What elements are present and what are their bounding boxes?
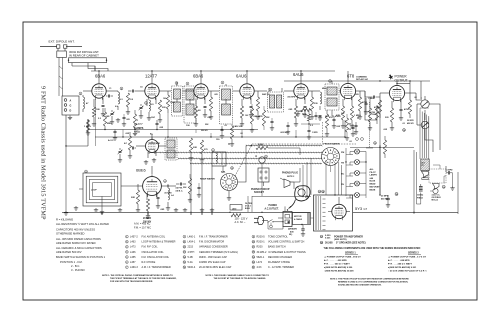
record changer plug <box>295 186 310 201</box>
svg-text:18: 18 <box>321 242 323 244</box>
svg-text:C1: C1 <box>109 88 111 90</box>
resistor V3 screen <box>209 91 213 119</box>
svg-text:L463: L463 <box>130 241 136 244</box>
wire AVC bus <box>88 120 258 130</box>
svg-text:F.M. ANTENNA COIL: F.M. ANTENNA COIL <box>142 236 166 239</box>
wires V2 stage <box>136 71 171 106</box>
capacitor C4 coupling <box>128 90 136 93</box>
legend column 1 <box>126 235 176 269</box>
ground V2b <box>144 158 156 164</box>
resistor avc 1 <box>103 108 106 130</box>
resistor 4700 right <box>383 136 386 158</box>
capacitor bus 3 <box>220 126 224 138</box>
svg-text:LOOP: LOOP <box>91 190 97 192</box>
svg-text:16: 16 <box>395 194 397 196</box>
svg-text:CERAMIC TRIMMER (IN 5 GANG): CERAMIC TRIMMER (IN 5 GANG) <box>199 251 238 254</box>
svg-text:1 MEG: 1 MEG <box>84 126 91 128</box>
svg-text:13: 13 <box>183 252 185 254</box>
resistor det 2 <box>368 104 372 130</box>
svg-text:EXT. DIPOLE ANT.: EXT. DIPOLE ANT. <box>49 40 75 44</box>
svg-text:NOTE 1: THE CRITICAL PHONO: NOTE 1: THE CRITICAL PHONO COMPENSATION … <box>102 274 173 277</box>
svg-text:R = KILOHMS: R = KILOHMS <box>56 218 73 222</box>
capacitor 6BE6 right <box>197 183 201 197</box>
legend column 3 <box>252 235 307 269</box>
svg-text:✚ C . . . . . . .008 MFD: ✚ C . . . . . . .008 MFD <box>388 259 410 262</box>
svg-text:VOLUME CONTROL & SWITCH: VOLUME CONTROL & SWITCH <box>268 241 304 244</box>
svg-text:4.5TH: 4.5TH <box>188 251 195 254</box>
capacitor V2b <box>133 147 137 150</box>
legend power transformer <box>320 235 363 241</box>
label pilot lamps <box>370 168 381 191</box>
band switch FRONT WAFER <box>322 148 340 166</box>
svg-text:C - 12 WHF. TRIMMER: C - 12 WHF. TRIMMER <box>268 266 294 269</box>
resistor 4700 ohm <box>404 97 412 118</box>
label FRONT WAFER <box>324 143 340 146</box>
svg-text:OSCILLATOR COIL: OSCILLATOR COIL <box>142 251 165 254</box>
svg-text:A.M. I.F. TRANSFORMER: A.M. I.F. TRANSFORMER <box>142 266 171 269</box>
folded dipole in cabinet <box>68 58 107 66</box>
svg-text:20 MFD: 20 MFD <box>381 196 389 198</box>
shielded cable 1 <box>246 145 322 147</box>
svg-text:SOUND AND RECORD CHANGER OPERA: SOUND AND RECORD CHANGER OPERATION. <box>338 283 382 286</box>
resistor V6 load <box>341 106 344 124</box>
ground V3 stage <box>194 113 207 126</box>
svg-text:16: 16 <box>183 267 185 269</box>
svg-text:W.): W.) <box>289 234 293 236</box>
svg-text:5.4A: 5.4A <box>188 261 193 264</box>
svg-text:.005 MFD: .005 MFD <box>287 97 296 99</box>
svg-text:FILAMENT CHOKE: FILAMENT CHOKE <box>268 261 290 264</box>
resistor avc 2 <box>133 110 136 130</box>
capacitor stage4 extra <box>270 118 274 130</box>
svg-text:.02: .02 <box>349 141 352 143</box>
capacitor V1 bypass <box>102 106 105 113</box>
capacitor stage1 extra <box>122 114 130 126</box>
label 105-125V <box>235 218 248 225</box>
svg-text:9: 9 <box>266 156 267 158</box>
antenna terminal board <box>62 96 79 115</box>
wires V8 <box>136 166 176 200</box>
svg-text:250 WV: 250 WV <box>201 130 208 132</box>
svg-text:.02 F.M.: .02 F.M. <box>175 188 183 190</box>
label field coil <box>417 194 424 200</box>
svg-text:6BA6: 6BA6 <box>193 74 204 79</box>
svg-text:1 MEG: 1 MEG <box>368 98 374 100</box>
labels elec caps right <box>403 120 415 132</box>
trimmer C6 <box>139 104 144 114</box>
capacitor motor line <box>301 225 305 236</box>
svg-text:R200: R200 <box>257 246 264 249</box>
wire dipole to set <box>72 66 108 71</box>
svg-text:MEG: MEG <box>322 88 327 90</box>
svg-text:BAND SWITCH SHOWN IN POSITION: BAND SWITCH SHOWN IN POSITION 1 <box>56 255 106 259</box>
IF transformer T4 <box>268 88 284 112</box>
svg-text:19: 19 <box>252 257 254 259</box>
svg-text:5.4B: 5.4B <box>188 256 193 259</box>
tube V4 6AU6 <box>240 82 254 100</box>
capacitor V3 bypass <box>204 107 207 114</box>
label 300 ohm FM dipole ant <box>69 50 99 58</box>
wires speaker area <box>414 150 446 214</box>
tube V8 6BE6 <box>143 175 162 197</box>
wire wafer to if <box>238 166 247 182</box>
coil L2 fm rf <box>118 91 120 110</box>
svg-text:PHONO PLUG: PHONO PLUG <box>282 172 298 175</box>
svg-text:RECORD CHANGER: RECORD CHANGER <box>268 256 292 259</box>
wire verticals centre <box>191 146 246 213</box>
shielded wire to volume <box>366 102 373 148</box>
speaker 2 pm <box>430 184 439 194</box>
capacitor V4 bypass <box>249 107 253 118</box>
capacitor V5 bypass <box>303 107 307 118</box>
svg-text:4700: 4700 <box>404 108 410 111</box>
svg-text:NOTE 3: THE PHONO PICKUP SOC: NOTE 3: THE PHONO PICKUP SOCKET WITH RES… <box>330 278 409 281</box>
dial lamp PH <box>341 181 360 186</box>
legend column 2 <box>183 235 238 269</box>
wires V7 stage <box>385 81 416 108</box>
resistor V1 cathode <box>92 107 95 122</box>
label phono plug <box>282 172 298 178</box>
tube V3 6BA6 <box>194 82 208 100</box>
svg-text:.02: .02 <box>414 97 417 99</box>
svg-text:A.M. = 455 KC: A.M. = 455 KC <box>134 223 151 226</box>
svg-text:BEAD: BEAD <box>370 182 376 185</box>
svg-text:5400-4: 5400-4 <box>188 266 196 269</box>
resistor V8 osc grid <box>131 184 140 212</box>
svg-text:6: 6 <box>213 150 214 152</box>
capacitor det 2 <box>354 122 358 134</box>
svg-text:THE FOLLOWING COMPONENTS ARE U: THE FOLLOWING COMPONENTS ARE USED WITH T… <box>324 247 421 250</box>
rear wafer pointer <box>235 145 252 177</box>
resistor V2 grid <box>126 93 129 110</box>
shielded cable 2 <box>150 152 322 154</box>
wires wafer to transformer <box>326 160 342 195</box>
svg-text:BC: BC <box>341 174 345 176</box>
speaker jack J2 <box>417 121 429 129</box>
svg-text:A.C. 60 ∼: A.C. 60 ∼ <box>235 221 247 224</box>
svg-text:9: 9 <box>253 236 254 238</box>
svg-text:2 - B.C.: 2 - B.C. <box>71 264 80 268</box>
svg-text:CAPACITORS 400 WV UNLESS: CAPACITORS 400 WV UNLESS <box>56 228 95 232</box>
svg-text:10MFD 25V ELEC.CAP: 10MFD 25V ELEC.CAP <box>199 261 226 264</box>
svg-text:17: 17 <box>252 247 254 249</box>
svg-text:15: 15 <box>183 262 185 264</box>
svg-text:8: 8 <box>126 242 127 244</box>
svg-text:20-20 MFD-450V ELEC.CAP: 20-20 MFD-450V ELEC.CAP <box>199 266 232 269</box>
svg-text:POWER TRANSFORMER: POWER TRANSFORMER <box>334 236 363 239</box>
series components note <box>287 221 421 250</box>
svg-text:F.M. OSCILLATOR COIL: F.M. OSCILLATOR COIL <box>142 256 170 259</box>
svg-text:.005: .005 <box>126 119 130 121</box>
svg-text:220K: 220K <box>258 144 264 146</box>
svg-text:9 FMT Radio Chassis used in Mo: 9 FMT Radio Chassis used in Model 3915 T… <box>40 86 47 220</box>
svg-text:FIELD: FIELD <box>417 197 424 199</box>
resistor det horizontal <box>296 108 342 139</box>
svg-text:2215: 2215 <box>188 246 194 249</box>
wire right bus down <box>365 91 379 124</box>
wires V5 stage <box>284 71 320 106</box>
dial lamp TB <box>341 160 360 165</box>
title text vertical left margin <box>40 86 47 220</box>
svg-text:47K: 47K <box>156 142 160 145</box>
svg-text:TONE CONTROL: TONE CONTROL <box>268 236 288 239</box>
svg-text:BAND SWITCH: BAND SWITCH <box>268 246 286 249</box>
notes IF freq <box>134 216 151 230</box>
circled pots <box>265 155 268 158</box>
svg-text:MEG: MEG <box>107 123 112 125</box>
coil ratio detector primary <box>318 92 322 120</box>
resistor V6 avc <box>350 106 353 124</box>
series table <box>324 252 427 273</box>
note 3 fine print <box>330 278 409 287</box>
svg-text:10: 10 <box>374 143 376 145</box>
osc coil L4 <box>166 184 175 210</box>
svg-text:L473: L473 <box>130 246 136 249</box>
svg-text:OTHERWISE MARKED: OTHERWISE MARKED <box>56 232 85 236</box>
svg-text:REAR WAFER: REAR WAFER <box>200 178 215 181</box>
svg-text:9.320: 9.320 <box>325 235 331 237</box>
svg-text:A.M.: A.M. <box>221 171 226 174</box>
svg-text:ⒶAMPS: ⒶAMPS <box>134 126 144 130</box>
capacitor 100 mfd note <box>175 183 186 193</box>
svg-text:VARIABLE CONDENSER: VARIABLE CONDENSER <box>199 246 228 249</box>
wires rectifier <box>328 197 350 212</box>
svg-text:1 MEG: 1 MEG <box>354 115 361 117</box>
tube V5 6AU6 <box>294 82 308 100</box>
output transformer <box>421 159 429 171</box>
label EXT. DIPOLE ANT. <box>49 40 75 44</box>
svg-text:7: 7 <box>126 267 127 269</box>
capacitor 20mfd 450 top <box>381 193 398 208</box>
legend speaker <box>320 241 366 244</box>
svg-text:7: 7 <box>270 89 271 91</box>
svg-text:.005 MFD: .005 MFD <box>280 132 289 134</box>
svg-text:FOR USE WITH THE TELEVISIO: FOR USE WITH THE TELEVISION RECEIVER. <box>110 281 153 283</box>
capacitor bus 2 <box>156 120 159 130</box>
svg-text:✚ C . . . . . . . .003 MFD: ✚ C . . . . . . . .003 MFD <box>324 259 347 262</box>
dashed box speaker plug <box>429 169 446 183</box>
svg-text:R200-5: R200-5 <box>257 236 266 239</box>
resistor V3 cathode <box>194 106 197 122</box>
wires dial lamps <box>346 148 366 198</box>
svg-text:3 - PHONO: 3 - PHONO <box>71 268 85 272</box>
resistor V2b grid <box>128 132 132 158</box>
resistor V8 cathode <box>146 199 150 218</box>
wires V2b <box>136 134 166 158</box>
svg-text:●(SEE NOTE ABOVE) 9.301: ●(SEE NOTE ABOVE) 9.301 <box>388 266 417 269</box>
svg-text:3.2Ω V.C.: 3.2Ω V.C. <box>432 193 441 196</box>
svg-text:6: 6 <box>126 262 127 264</box>
svg-text:MOTOR: MOTOR <box>294 216 302 218</box>
svg-text:4: 4 <box>165 180 166 183</box>
svg-text:●(SEE NOTE ABOVE) 9.320: ●(SEE NOTE ABOVE) 9.320 <box>324 266 353 269</box>
svg-text:A.V.C.: A.V.C. <box>108 139 115 142</box>
switch on ac line <box>267 220 283 228</box>
resistors mid area <box>189 138 209 162</box>
label phono ac outlet <box>265 205 280 210</box>
svg-text:11: 11 <box>184 242 186 244</box>
svg-text:○(SEE NOTE ABOVE) 30.508: ○(SEE NOTE ABOVE) 30.508 <box>324 270 354 273</box>
discriminator transformer T5 <box>325 81 339 110</box>
dial lamp FM <box>341 149 360 154</box>
label voice coil <box>432 193 442 201</box>
extra tiny labels <box>109 86 417 136</box>
capacitor power grid <box>370 96 380 105</box>
notes text block left <box>56 218 109 273</box>
svg-text:10: 10 <box>252 242 254 244</box>
label 6AU6 V4 <box>236 74 247 79</box>
svg-text:12: 12 <box>183 247 185 249</box>
capacitor V7 cathode <box>399 106 403 120</box>
svg-text:18: 18 <box>252 252 254 254</box>
trimmer C1 <box>110 110 115 120</box>
svg-text:1000Ω: 1000Ω <box>417 194 424 197</box>
wire 6T8 couplings <box>332 91 370 116</box>
phono ac outlet <box>278 212 292 227</box>
svg-text:REWIRED IS USED 6.5 TO COMPEN: REWIRED IS USED 6.5 TO COMPENSATED CONNE… <box>338 280 409 283</box>
wire speaker leads <box>420 97 429 159</box>
resistor 470K det <box>358 91 361 115</box>
rectifier tube V9 5Y3GT <box>332 202 346 220</box>
dial lamp BC <box>341 171 360 176</box>
svg-text:20 MFD: 20 MFD <box>407 120 414 122</box>
labels stage4 <box>233 116 263 128</box>
band switch REAR WAFER <box>200 174 238 191</box>
wire volume to 6be6 <box>248 163 285 212</box>
wire B plus bus <box>95 113 345 137</box>
resistor 6BE6 right 1 <box>183 174 192 202</box>
label AM <box>221 171 226 174</box>
resistor V5 cathode <box>294 106 298 126</box>
speaker jack J1 <box>417 96 429 108</box>
record changer motor <box>293 213 311 225</box>
antenna coil L1 <box>83 95 85 112</box>
tube V2b half 12AT7 <box>146 138 159 155</box>
svg-text:30.508: 30.508 <box>325 242 333 245</box>
svg-text:6AU6: 6AU6 <box>236 74 247 79</box>
wires V4 stage <box>233 71 267 106</box>
svg-text:L455: L455 <box>130 256 136 259</box>
loop antenna <box>79 173 121 206</box>
capacitor stage5 extra <box>280 122 290 134</box>
svg-text:6BE6: 6BE6 <box>136 168 147 173</box>
svg-text:F.M. R-F COIL: F.M. R-F COIL <box>142 246 159 249</box>
svg-text:F.M. I.F. TRANSFORMER: F.M. I.F. TRANSFORMER <box>199 236 228 239</box>
svg-text:A.C.OUTLET.: A.C.OUTLET. <box>265 207 280 210</box>
svg-text:MFD: MFD <box>325 116 330 118</box>
IF transformer T3 <box>220 84 233 124</box>
svg-text:BASE: BASE <box>370 188 376 191</box>
circled 16 speaker <box>442 185 445 189</box>
label draws <box>288 228 297 237</box>
junction dots bus <box>87 70 410 225</box>
coil osc L5 <box>149 100 150 116</box>
svg-text:450 WV: 450 WV <box>407 122 414 125</box>
svg-text:100: 100 <box>163 98 166 100</box>
svg-text:BLUE: BLUE <box>370 181 376 183</box>
svg-text:7: 7 <box>222 82 223 84</box>
svg-text:L460-3: L460-3 <box>130 266 138 269</box>
svg-text:4MFD - 450V ELEC.CAP: 4MFD - 450V ELEC.CAP <box>199 256 227 259</box>
svg-text:470K: 470K <box>370 111 376 114</box>
record changer cable <box>287 200 296 211</box>
svg-text:2: 2 <box>126 247 127 249</box>
svg-text:A: A <box>70 100 72 103</box>
labels stage5 <box>288 103 318 113</box>
wire bottom chassis bus <box>62 193 458 214</box>
svg-text:R-F CHOKE: R-F CHOKE <box>142 261 156 264</box>
svg-text:6AU6: 6AU6 <box>293 72 304 77</box>
svg-text:5: 5 <box>146 103 147 105</box>
svg-text:5620-1: 5620-1 <box>257 256 265 259</box>
svg-text:1 MFD: 1 MFD <box>312 132 318 134</box>
tube V2 12AT7 <box>145 82 159 100</box>
svg-text:L474: L474 <box>257 261 263 264</box>
svg-text:1 MFD: 1 MFD <box>447 170 454 172</box>
resistor V7 cathode <box>385 108 394 130</box>
capacitor bus 1 <box>113 130 117 141</box>
svg-text:2: 2 <box>121 88 122 90</box>
svg-text:BAYONET: BAYONET <box>370 186 381 189</box>
svg-text:16: 16 <box>403 130 405 132</box>
resistor V5 screen <box>310 91 314 119</box>
svg-text:I.F.SPEAKER & OUTPUT TRANS.: I.F.SPEAKER & OUTPUT TRANS. <box>268 251 307 254</box>
wire top bus 2 <box>284 80 430 82</box>
svg-text:.005: .005 <box>355 94 359 96</box>
svg-text:SOCKET: SOCKET <box>254 191 265 194</box>
svg-text:5: 5 <box>126 257 127 259</box>
wires ac area <box>268 218 314 229</box>
label 6T8 <box>347 74 369 82</box>
field coil winding <box>419 184 423 200</box>
twin lead feeder wire <box>59 58 63 97</box>
speaker 1 electrodynamic <box>422 171 429 180</box>
svg-text:DET-AVC-AF: DET-AVC-AF <box>356 78 369 81</box>
svg-text:9.301: 9.301 <box>325 238 331 240</box>
wire phono cable <box>268 148 300 189</box>
label 6BA6 V1 <box>95 74 106 79</box>
svg-text:D: D <box>70 110 72 113</box>
label 5Y3GT <box>355 206 368 211</box>
wire loop to band switch <box>100 186 136 214</box>
svg-text:4 MFD: 4 MFD <box>335 115 341 118</box>
svg-text:ARE RATED 500 WV: ARE RATED 500 WV <box>56 250 82 254</box>
svg-text:G: G <box>70 105 72 108</box>
wires V3 stage <box>183 71 220 106</box>
resistor 6AU6b plate <box>325 110 329 136</box>
tube V6 6T8 <box>340 81 355 100</box>
svg-text:17: 17 <box>321 236 323 238</box>
svg-text:BULB: BULB <box>245 208 250 210</box>
resistor stage4 extra2 <box>262 106 270 130</box>
labels V8 area <box>143 209 165 224</box>
labels bus row <box>98 118 228 142</box>
resistor stage4 extra <box>245 104 254 132</box>
grounds bottom <box>74 206 214 212</box>
label 6AU6 V5 <box>293 72 304 77</box>
tube V7 power output <box>389 83 404 102</box>
labels right stages <box>310 114 406 131</box>
wires V1 stage <box>83 71 118 146</box>
svg-text:.05 B.C.: .05 B.C. <box>175 191 183 193</box>
svg-text:& CABLE: & CABLE <box>294 218 303 221</box>
small caps stage1 <box>106 95 113 98</box>
ground ant board <box>68 116 72 120</box>
resistor plate 1000 <box>166 91 175 113</box>
svg-text:ALL CERAMIC & MICA CAPACITORS: ALL CERAMIC & MICA CAPACITORS <box>56 246 102 250</box>
svg-text:ALL .005 MFD PAPER CAPACITORS: ALL .005 MFD PAPER CAPACITORS <box>56 237 101 241</box>
svg-text:L454-1: L454-1 <box>188 241 196 244</box>
